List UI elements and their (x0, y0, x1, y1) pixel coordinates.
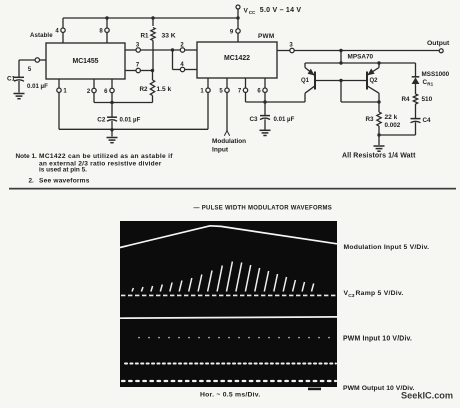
svg-text:C3: C3 (250, 116, 259, 123)
svg-text:C4: C4 (423, 117, 432, 124)
svg-text:Input: Input (212, 146, 229, 153)
svg-text:MC1422: MC1422 (224, 55, 250, 62)
svg-text:C1: C1 (7, 76, 16, 83)
svg-text:Q1: Q1 (301, 78, 310, 84)
svg-text:PWM Input 10 V/Div.: PWM Input 10 V/Div. (343, 335, 412, 342)
svg-text:0.002: 0.002 (385, 122, 401, 129)
svg-text:5.0 V – 14 V: 5.0 V – 14 V (260, 7, 302, 14)
svg-text:MSS1000: MSS1000 (422, 71, 450, 78)
svg-text:Output: Output (427, 40, 450, 47)
svg-text:is used at pin 5.: is used at pin 5. (39, 167, 87, 174)
svg-text:All Resistors 1/4 Watt: All Resistors 1/4 Watt (342, 153, 416, 160)
svg-text:Modulation Input 5 V/Div.: Modulation Input 5 V/Div. (344, 244, 430, 251)
svg-text:Hor. ~ 0.5 ms/Div.: Hor. ~ 0.5 ms/Div. (200, 392, 260, 399)
svg-text:— PULSE WIDTH MODULATOR WAVEFO: — PULSE WIDTH MODULATOR WAVEFORMS (194, 206, 333, 212)
svg-text:22 k: 22 k (385, 114, 398, 121)
svg-text:PWM: PWM (258, 33, 275, 40)
svg-text:2.: 2. (29, 178, 35, 185)
svg-text:MC1422 can be utilized as an a: MC1422 can be utilized as an astable if (39, 153, 173, 160)
svg-text:0.01 µF: 0.01 µF (27, 83, 48, 90)
svg-text:See waveforms: See waveforms (39, 178, 90, 185)
svg-text:Astable: Astable (30, 32, 53, 39)
svg-text:1.5 k: 1.5 k (157, 86, 172, 93)
svg-text:R4: R4 (402, 96, 411, 103)
svg-text:Modulation: Modulation (212, 138, 246, 145)
svg-text:MC1455: MC1455 (72, 58, 98, 65)
svg-text:C3: C3 (348, 293, 355, 299)
svg-text:R1: R1 (427, 82, 433, 87)
svg-text:0.01 µF: 0.01 µF (274, 116, 295, 123)
svg-text:CC: CC (249, 10, 256, 15)
svg-text:510: 510 (422, 96, 433, 103)
svg-text:R1: R1 (141, 32, 150, 39)
svg-text:Note 1.: Note 1. (16, 153, 38, 160)
svg-text:SeekIC.com: SeekIC.com (401, 390, 453, 400)
svg-text:R3: R3 (366, 116, 375, 123)
svg-text:R2: R2 (140, 86, 149, 93)
svg-text:33 K: 33 K (162, 32, 176, 39)
svg-text:MPSA70: MPSA70 (348, 54, 374, 61)
svg-text:0.01 µF: 0.01 µF (120, 116, 141, 123)
svg-text:C2: C2 (97, 116, 106, 123)
svg-text:Q2: Q2 (370, 78, 379, 84)
svg-text:Ramp 5 V/Div.: Ramp 5 V/Div. (356, 290, 404, 297)
